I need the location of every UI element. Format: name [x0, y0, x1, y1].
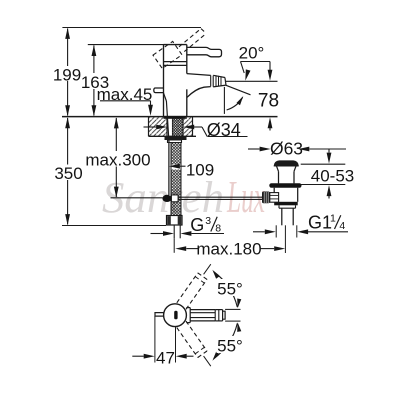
svg-text:G1: G1	[308, 212, 332, 232]
svg-text:47: 47	[156, 349, 175, 368]
svg-text:Ø34: Ø34	[207, 120, 241, 140]
svg-text:G: G	[190, 215, 204, 235]
svg-text:199: 199	[53, 66, 81, 85]
svg-text:Ø63: Ø63	[270, 138, 303, 158]
svg-text:55°: 55°	[217, 337, 243, 356]
svg-text:max.180: max.180	[196, 240, 261, 259]
svg-text:Lux: Lux	[226, 171, 265, 222]
svg-text:max.300: max.300	[85, 151, 150, 170]
svg-text:3: 3	[205, 215, 211, 227]
svg-text:350: 350	[54, 164, 82, 183]
svg-text:40-53: 40-53	[311, 167, 354, 186]
svg-text:55°: 55°	[217, 280, 243, 299]
svg-text:1: 1	[330, 212, 336, 224]
svg-text:78: 78	[258, 91, 279, 112]
svg-text:109: 109	[186, 161, 214, 180]
svg-text:4: 4	[339, 220, 345, 232]
svg-text:8: 8	[215, 223, 221, 235]
svg-text:20°: 20°	[239, 44, 265, 63]
